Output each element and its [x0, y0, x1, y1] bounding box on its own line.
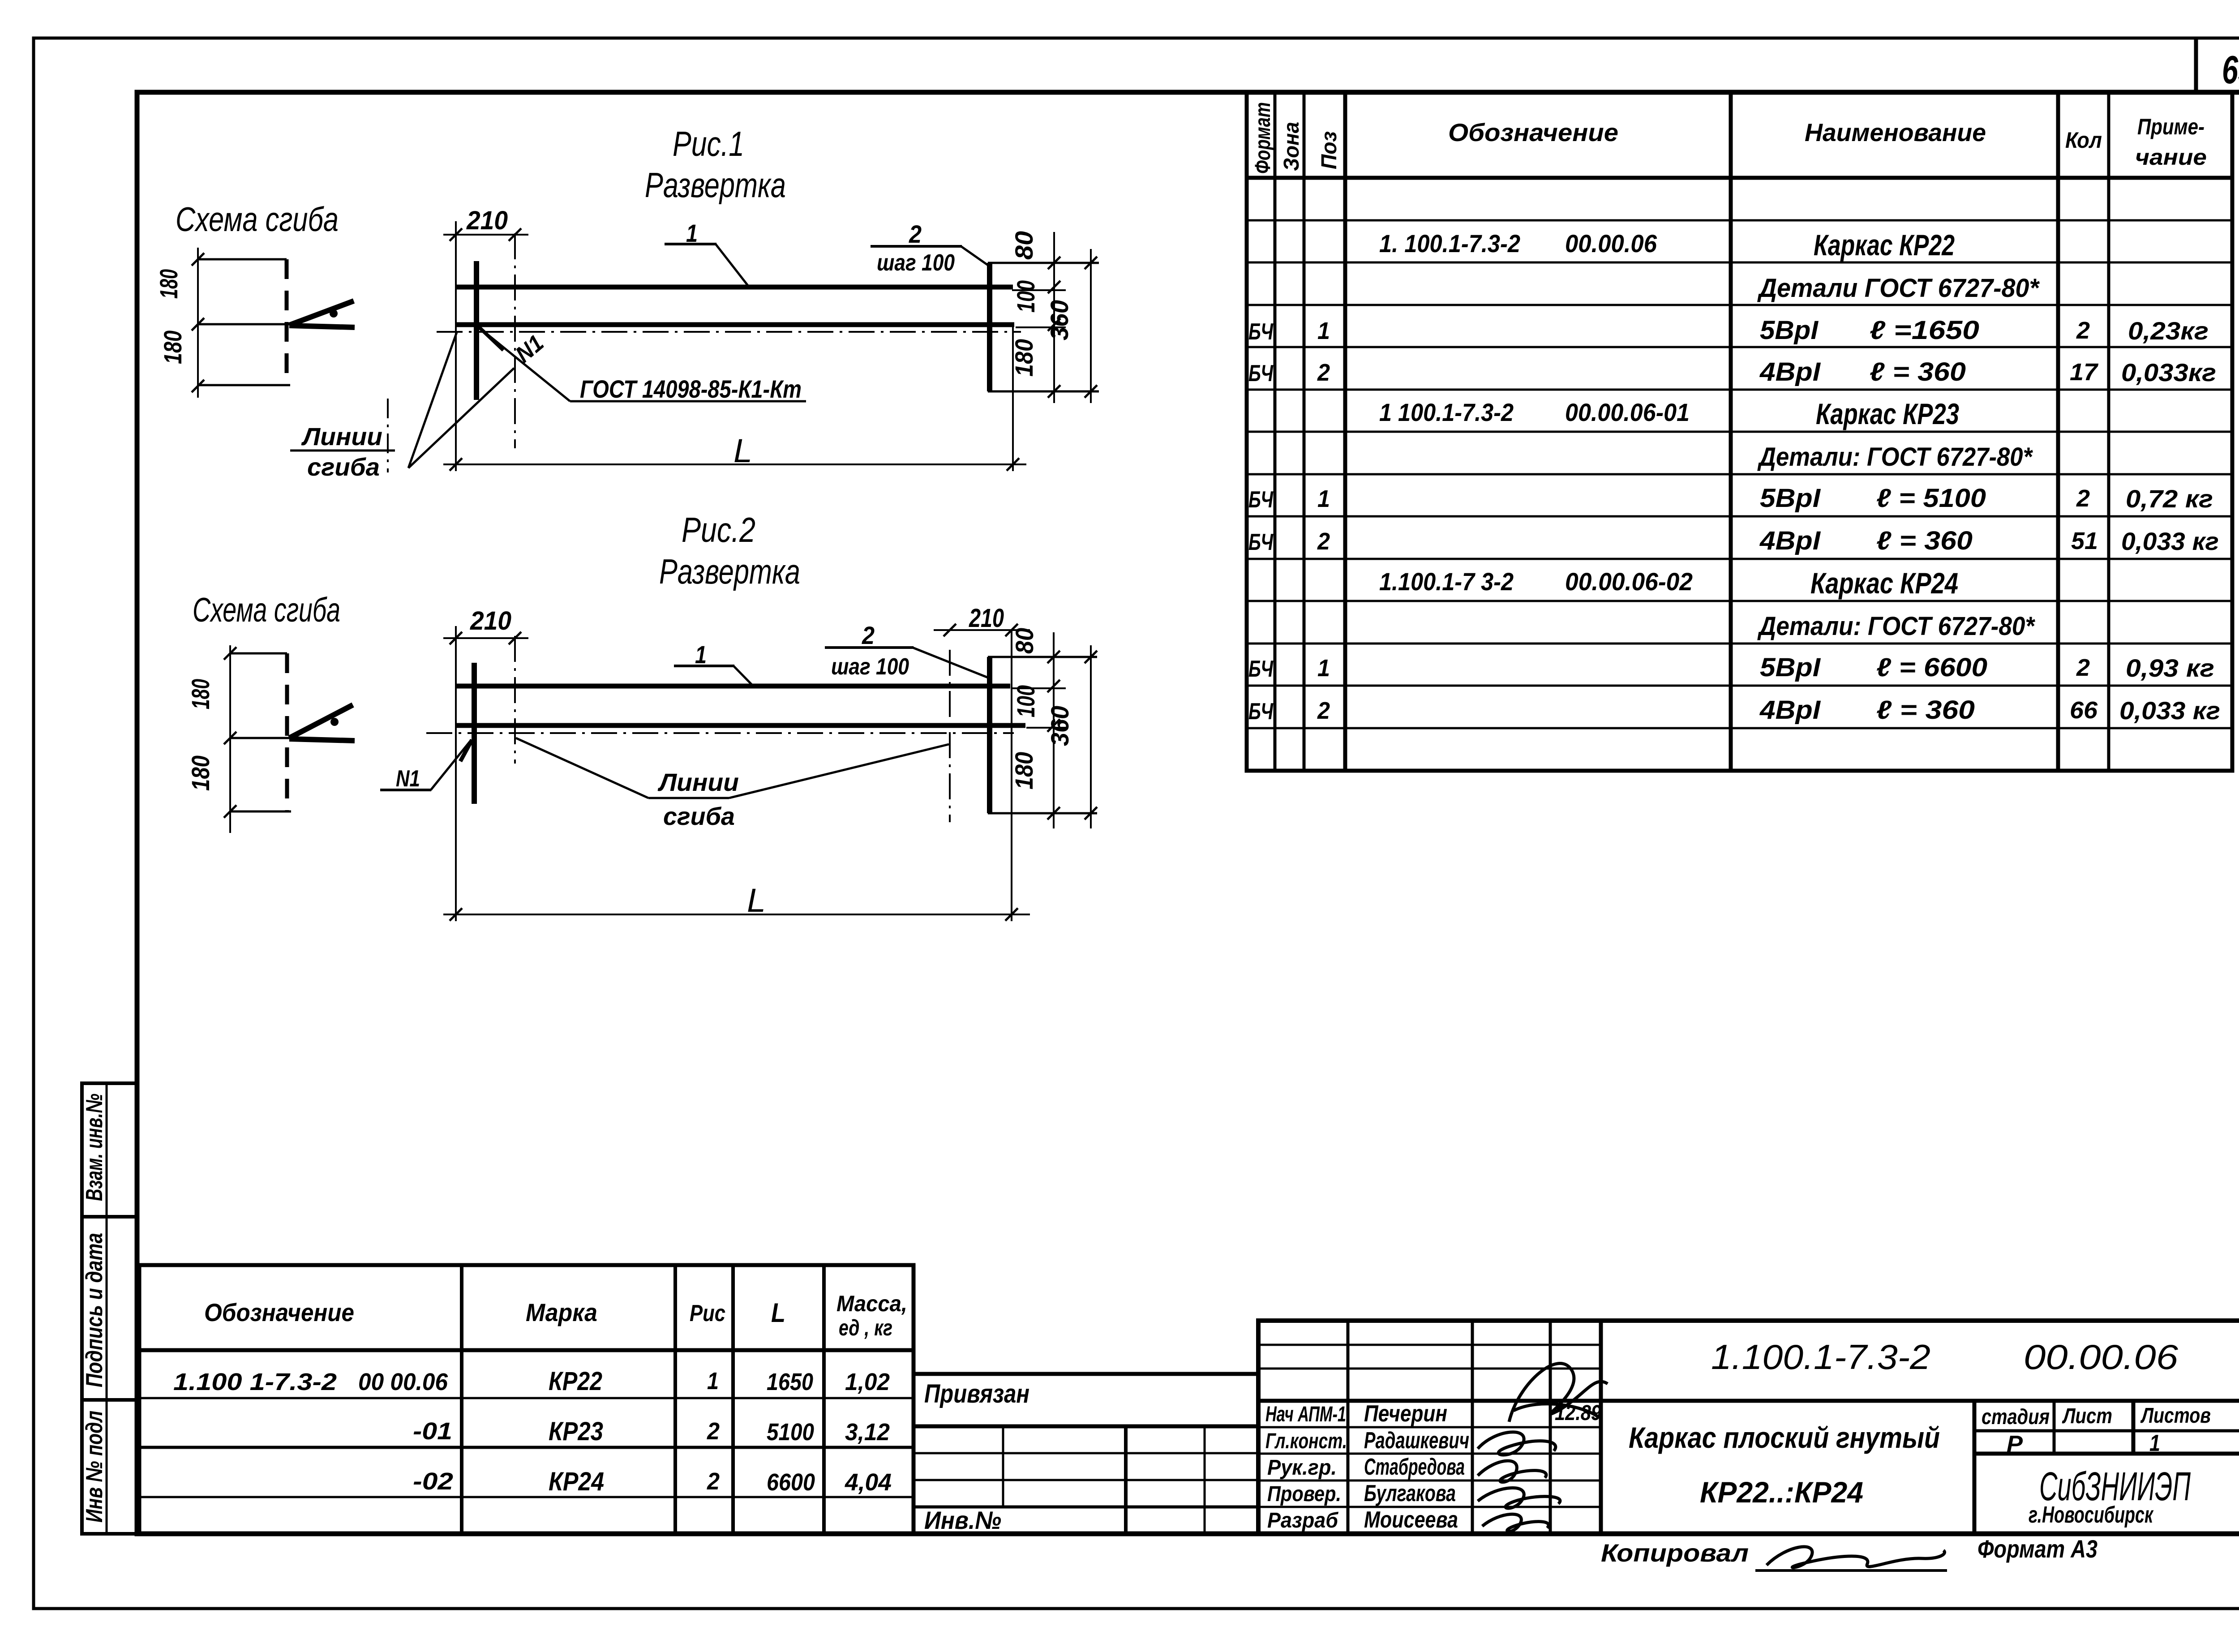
svg-text:Обозначение: Обозначение: [204, 1298, 354, 1326]
svg-text:Линии: Линии: [657, 768, 739, 796]
svg-text:ℓ = 6600: ℓ = 6600: [1876, 653, 1987, 682]
svg-text:Формат А3: Формат А3: [1977, 1535, 2097, 1563]
svg-text:1,02: 1,02: [845, 1369, 890, 1395]
svg-text:Гл.конст.: Гл.конст.: [1265, 1429, 1347, 1453]
svg-text:2: 2: [707, 1418, 720, 1445]
fig2 weld label N1: [380, 740, 472, 792]
svg-text:00.00.06: 00.00.06: [2024, 1337, 2179, 1377]
svg-text:360: 360: [1045, 300, 1073, 340]
svg-text:1: 1: [2149, 1430, 2160, 1456]
svg-text:ГОСТ 14098-85-К1-Кт: ГОСТ 14098-85-К1-Кт: [580, 375, 802, 403]
svg-text:ℓ = 360: ℓ = 360: [1876, 526, 1973, 555]
svg-text:КР23: КР23: [549, 1417, 603, 1446]
fig2 ext line top bar: [1011, 687, 1066, 689]
fig1 schema fold dot: [330, 309, 338, 318]
svg-text:сгиба: сгиба: [307, 453, 380, 481]
svg-text:Схема сгиба: Схема сгиба: [193, 591, 340, 629]
fig1 L right extension: [1012, 322, 1014, 471]
fig2 horizontal bend line dash-dot: [426, 732, 1014, 734]
svg-text:4ВрI: 4ВрI: [1759, 695, 1821, 725]
fig1 lower longitudinal bar: [456, 322, 1014, 327]
svg-text:1: 1: [707, 1368, 719, 1395]
svg-text:2: 2: [862, 621, 875, 649]
svg-text:КР24: КР24: [549, 1467, 604, 1496]
svg-text:Р: Р: [2007, 1431, 2023, 1457]
signature squiggle 1: [1509, 1364, 1608, 1422]
svg-text:2: 2: [1317, 697, 1330, 724]
fig2 schema fold bar horizontal: [289, 739, 355, 741]
svg-text:стадия: стадия: [1982, 1405, 2050, 1429]
fig2 schema dashed bend axis: [285, 653, 289, 812]
svg-text:1.100.1-7 3-2: 1.100.1-7 3-2: [1379, 567, 1514, 596]
svg-text:N1: N1: [396, 766, 420, 792]
fig1 left extension line: [455, 221, 457, 471]
svg-text:80: 80: [1010, 628, 1038, 654]
svg-text:Подпись и дата: Подпись и дата: [81, 1233, 107, 1387]
svg-text:210: 210: [470, 606, 511, 635]
svg-text:2: 2: [707, 1468, 720, 1495]
svg-text:65: 65: [2222, 47, 2239, 92]
svg-text:Развертка: Развертка: [659, 552, 800, 591]
svg-text:5ВрI: 5ВрI: [1760, 653, 1821, 682]
title block grid: [1258, 1321, 2239, 1534]
fig1 schema dimension line: [192, 248, 204, 398]
svg-text:Линии: Линии: [301, 422, 382, 451]
svg-text:2: 2: [2076, 654, 2090, 681]
fig1 schema bottom line: [198, 384, 290, 386]
svg-text:2: 2: [2076, 317, 2090, 344]
fig2 outer dim line: [1085, 645, 1097, 828]
svg-text:Зона: Зона: [1280, 122, 1304, 171]
fig1 inner dim line: [1048, 232, 1060, 403]
svg-text:КР22..:КР24: КР22..:КР24: [1700, 1476, 1863, 1509]
fig2 lower longitudinal bar: [456, 723, 1025, 728]
fig2 left dim 210 line: [443, 632, 528, 644]
svg-text:Каркас КР24: Каркас КР24: [1810, 566, 1958, 600]
svg-text:-02: -02: [413, 1468, 453, 1495]
svg-text:Наименование: Наименование: [1805, 118, 1986, 146]
svg-text:2: 2: [909, 220, 922, 248]
svg-text:17: 17: [2070, 359, 2099, 386]
svg-text:3,12: 3,12: [845, 1419, 890, 1446]
svg-text:0,72 кг: 0,72 кг: [2126, 485, 2213, 513]
fig2 left bend axis dash-dot: [514, 636, 516, 764]
fig2 left cross bar: [472, 663, 477, 804]
fig2 ext line lower bar: [1026, 727, 1066, 729]
svg-text:Масса,: Масса,: [836, 1291, 907, 1316]
fig2 inner dim line: [1047, 632, 1060, 828]
fig1 left cross bar: [474, 261, 479, 400]
svg-text:Булгакова: Булгакова: [1364, 1480, 1456, 1506]
fig1 bend lines note: [290, 332, 514, 481]
fig1 top longitudinal bar: [456, 285, 1013, 290]
fig2 right bent piece: [988, 657, 1097, 813]
fig1 GOST weld note: [478, 327, 806, 403]
fig2 schema fold dot: [330, 718, 339, 726]
svg-text:51: 51: [2071, 528, 2098, 554]
fig2 pos label 1: [674, 640, 754, 687]
svg-text:Развертка: Развертка: [645, 165, 786, 205]
fig2 L right extension: [1011, 630, 1012, 921]
svg-text:4,04: 4,04: [845, 1469, 892, 1496]
fig2 left extension line: [455, 626, 457, 921]
svg-text:4ВрI: 4ВрI: [1759, 357, 1821, 386]
svg-text:180: 180: [186, 755, 214, 791]
svg-text:1: 1: [1317, 318, 1330, 344]
copier signature: [1767, 1547, 1945, 1567]
fig1 ext line lower bar: [1016, 326, 1066, 328]
svg-text:1.100 1-7.3-2: 1.100 1-7.3-2: [173, 1369, 337, 1395]
svg-text:180: 180: [159, 330, 187, 364]
svg-text:Марка: Марка: [526, 1298, 597, 1326]
svg-text:Разраб: Разраб: [1267, 1509, 1338, 1532]
fig2 right bend axis dash-dot: [949, 650, 951, 822]
svg-text:Приме-: Приме-: [2137, 114, 2205, 139]
svg-text:Провер.: Провер.: [1267, 1482, 1341, 1506]
svg-text:210: 210: [969, 604, 1004, 633]
svg-text:L: L: [771, 1298, 785, 1328]
copier underline: [1755, 1569, 1947, 1572]
svg-text:сгиба: сгиба: [663, 802, 735, 830]
fig1 schema middle line: [198, 323, 292, 326]
svg-text:L: L: [747, 882, 766, 919]
svg-text:г.Новосибирск: г.Новосибирск: [2029, 1502, 2154, 1528]
svg-text:180: 180: [1010, 752, 1038, 790]
svg-text:1: 1: [1317, 655, 1330, 682]
fig1 pos label 2: [871, 220, 988, 276]
svg-text:Копировал: Копировал: [1601, 1539, 1749, 1567]
svg-text:0,033 кг: 0,033 кг: [2121, 527, 2219, 555]
svg-text:1.100.1-7.3-2: 1.100.1-7.3-2: [1711, 1337, 1930, 1377]
svg-text:ℓ =1650: ℓ =1650: [1870, 316, 1979, 345]
fig2 L dim line: [443, 908, 1030, 921]
svg-text:ℓ = 360: ℓ = 360: [1876, 695, 1975, 725]
signature squiggle 2: [1478, 1432, 1556, 1455]
svg-text:1: 1: [1317, 485, 1330, 512]
svg-text:100: 100: [1012, 685, 1040, 717]
svg-text:ℓ = 5100: ℓ = 5100: [1876, 484, 1986, 513]
fig1 L dim line: [443, 458, 1026, 471]
svg-text:Моисеева: Моисеева: [1364, 1507, 1458, 1533]
fig1 horizontal bend line dash-dot: [437, 331, 1021, 333]
svg-text:Детали: ГОСТ 6727-80*: Детали: ГОСТ 6727-80*: [1757, 442, 2033, 472]
fig2 schema fold bar diagonal: [289, 705, 353, 738]
fig2 pos label 2: [825, 621, 988, 680]
svg-text:БЧ: БЧ: [1248, 319, 1274, 345]
svg-text:БЧ: БЧ: [1248, 360, 1274, 386]
bottom-left marks table grid: [139, 1265, 914, 1534]
svg-text:чание: чание: [2135, 145, 2207, 170]
svg-text:00.00.06-01: 00.00.06-01: [1565, 398, 1690, 426]
svg-text:5ВрI: 5ВрI: [1760, 316, 1819, 345]
fig2 schema top line: [230, 652, 287, 655]
fig1 weld label N1: [477, 326, 549, 368]
fig2 schema bottom line: [230, 811, 291, 813]
svg-text:Формат: Формат: [1251, 102, 1275, 174]
svg-text:210: 210: [466, 206, 508, 235]
svg-text:ℓ = 360: ℓ = 360: [1870, 357, 1966, 386]
svg-text:0,033кг: 0,033кг: [2121, 358, 2216, 386]
svg-text:Поз: Поз: [1317, 131, 1341, 169]
svg-text:1650: 1650: [767, 1369, 813, 1395]
fig1 pos label 1: [665, 219, 749, 287]
fig1 dim 210 line: [443, 228, 528, 241]
svg-text:Обозначение: Обозначение: [1448, 118, 1618, 146]
svg-text:1 100.1-7.3-2: 1 100.1-7.3-2: [1379, 398, 1514, 426]
svg-text:БЧ: БЧ: [1248, 699, 1274, 725]
fig1 schema dashed bend axis: [285, 259, 289, 386]
svg-text:5100: 5100: [767, 1419, 814, 1446]
svg-text:80: 80: [1010, 231, 1038, 260]
svg-text:БЧ: БЧ: [1248, 656, 1274, 682]
svg-text:Кол: Кол: [2065, 128, 2102, 153]
fig2 top longitudinal bar: [456, 684, 1010, 689]
svg-text:КР22: КР22: [549, 1367, 602, 1396]
svg-text:Рук.гр.: Рук.гр.: [1267, 1456, 1337, 1480]
svg-text:Рис: Рис: [690, 1300, 725, 1326]
svg-text:Листов: Листов: [2140, 1404, 2211, 1428]
left attribute boxes: [82, 1083, 137, 1534]
svg-text:Инв.№: Инв.№: [924, 1506, 1001, 1534]
svg-text:1: 1: [695, 640, 707, 669]
svg-text:5ВрI: 5ВрI: [1760, 484, 1821, 513]
svg-text:360: 360: [1046, 706, 1074, 746]
svg-text:Схема сгиба: Схема сгиба: [176, 201, 339, 239]
fig2 bend lines note: [516, 738, 949, 830]
svg-text:БЧ: БЧ: [1248, 529, 1274, 555]
specification table grid: [1247, 92, 2232, 771]
svg-text:Взам. инв.№: Взам. инв.№: [81, 1094, 107, 1201]
svg-text:Лист: Лист: [2062, 1404, 2112, 1428]
svg-text:Привязан: Привязан: [924, 1379, 1029, 1408]
svg-text:Каркас плоский гнутый: Каркас плоский гнутый: [1629, 1421, 1940, 1454]
svg-text:66: 66: [2070, 697, 2098, 724]
page number box: [2194, 38, 2198, 92]
svg-text:шаг 100: шаг 100: [877, 250, 955, 276]
svg-text:шаг 100: шаг 100: [831, 654, 909, 680]
fig2 schema dimension line: [224, 645, 236, 833]
svg-text:Рис.2: Рис.2: [682, 510, 755, 549]
svg-text:Каркас КР23: Каркас КР23: [1816, 397, 1959, 430]
svg-text:Инв № подл: Инв № подл: [81, 1411, 107, 1523]
fig1 schema fold bar horizontal: [289, 326, 355, 327]
svg-text:0,23кг: 0,23кг: [2128, 317, 2209, 345]
svg-text:БЧ: БЧ: [1248, 487, 1274, 513]
svg-text:Печерин: Печерин: [1364, 1401, 1447, 1427]
svg-text:4ВрI: 4ВрI: [1759, 526, 1821, 555]
privyazan block grid: [914, 1374, 1258, 1534]
svg-text:6600: 6600: [767, 1469, 815, 1496]
svg-text:Радашкевич: Радашкевич: [1364, 1428, 1469, 1454]
signature squiggle 5: [1482, 1514, 1548, 1531]
fig1 schema fold bar diagonal: [289, 301, 354, 325]
fig1 schema top line: [198, 258, 287, 261]
svg-text:Детали: ГОСТ 6727-80*: Детали: ГОСТ 6727-80*: [1757, 612, 2035, 641]
svg-text:2: 2: [1317, 528, 1330, 555]
fig1 left bend axis dash-dot: [514, 233, 516, 448]
svg-text:00 00.06: 00 00.06: [358, 1369, 448, 1395]
svg-text:ед , кг: ед , кг: [839, 1315, 892, 1340]
svg-text:180: 180: [186, 679, 214, 709]
fig1 right bent piece: [988, 263, 1099, 391]
fig2 right dim 210 line: [934, 624, 1030, 636]
fig2 schema middle line: [230, 737, 292, 739]
svg-text:180: 180: [1010, 339, 1038, 377]
svg-text:180: 180: [154, 269, 183, 299]
svg-text:L: L: [733, 432, 752, 469]
signature squiggle 3: [1478, 1461, 1546, 1482]
svg-text:100: 100: [1012, 280, 1040, 313]
svg-text:-01: -01: [413, 1418, 452, 1445]
svg-text:Нач АПМ-1: Нач АПМ-1: [1265, 1403, 1346, 1426]
svg-text:2: 2: [1317, 359, 1330, 386]
svg-text:Детали ГОСТ 6727-80*: Детали ГОСТ 6727-80*: [1757, 274, 2040, 303]
fig1 outer dim line: [1085, 249, 1097, 403]
svg-text:0,033 кг: 0,033 кг: [2119, 696, 2220, 725]
svg-text:Каркас КР22: Каркас КР22: [1814, 228, 1955, 262]
svg-text:2: 2: [2076, 485, 2090, 512]
svg-text:Стабредова: Стабредова: [1364, 1454, 1465, 1480]
signature squiggle 4: [1478, 1488, 1560, 1508]
svg-text:0,93 кг: 0,93 кг: [2126, 654, 2214, 682]
fig1 ext line top bar: [1012, 289, 1066, 291]
svg-text:00.00.06: 00.00.06: [1565, 229, 1657, 257]
svg-text:Рис.1: Рис.1: [673, 124, 744, 163]
svg-text:1. 100.1-7.3-2: 1. 100.1-7.3-2: [1379, 229, 1520, 257]
svg-text:00.00.06-02: 00.00.06-02: [1565, 567, 1693, 596]
